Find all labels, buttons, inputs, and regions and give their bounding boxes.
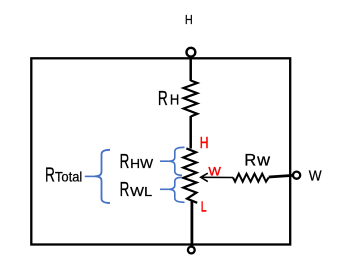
terminal H circle — [187, 48, 196, 57]
svg-text:W: W — [208, 165, 221, 179]
svg-text:W: W — [309, 169, 322, 185]
resistor RH — [184, 81, 198, 117]
wiper arrow — [202, 176, 234, 178]
svg-text:R: R — [158, 88, 168, 110]
wire potentiometer to L terminal — [190, 200, 193, 246]
label RH — [158, 88, 179, 110]
svg-text:H: H — [185, 12, 193, 27]
brace RTotal — [95, 150, 110, 203]
terminal W circle — [293, 172, 300, 179]
label RTotal — [45, 164, 82, 187]
label RHW — [120, 151, 154, 173]
svg-text:w: w — [256, 150, 271, 169]
svg-text:HW: HW — [130, 156, 153, 171]
terminal L circle — [188, 247, 195, 254]
wire RH to potentiometer — [189, 116, 192, 149]
svg-text:L: L — [201, 199, 207, 215]
resistor RW — [233, 174, 269, 182]
wire H terminal to RH — [189, 55, 192, 81]
svg-text:R: R — [45, 164, 55, 187]
brace RWL section — [169, 177, 185, 202]
dash to RTotal — [85, 175, 95, 177]
enclosure box — [31, 58, 290, 244]
brace RHW section — [169, 147, 185, 175]
svg-text:R: R — [120, 179, 130, 201]
svg-text:R: R — [244, 150, 256, 169]
svg-text:H: H — [170, 93, 179, 109]
label RWL — [120, 179, 153, 201]
svg-text:R: R — [120, 151, 130, 173]
svg-text:H: H — [200, 135, 209, 152]
dash to RHW — [160, 160, 169, 162]
label RW — [244, 150, 271, 169]
svg-text:Total: Total — [55, 170, 82, 185]
potentiometer RHL — [183, 148, 197, 202]
wire RW to W terminal — [269, 175, 293, 177]
dash to RWL — [160, 188, 169, 190]
svg-text:WL: WL — [130, 184, 152, 199]
